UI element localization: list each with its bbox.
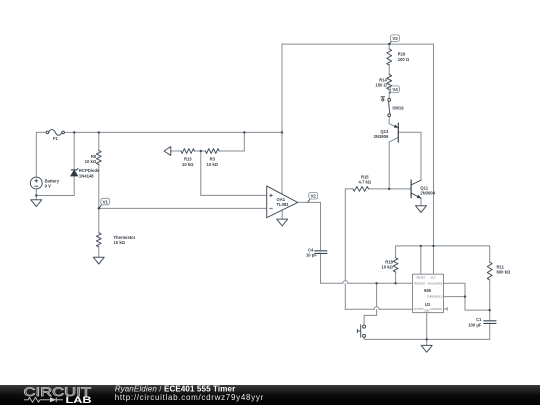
svg-text:GND: GND [424, 310, 430, 313]
node Q11 base [388, 188, 390, 190]
resistor R15 [353, 186, 368, 191]
wire R14 to switch top [388, 90, 390, 99]
svg-text:10 kΩ: 10 kΩ [85, 159, 97, 164]
wire diode top lead [73, 132, 75, 169]
wire R3 right to rail riser [219, 132, 244, 151]
wire R11 bottom to threshold node [489, 280, 491, 321]
wire 555 THRESHOLD to right riser [444, 296, 466, 298]
svg-text:100 Ω: 100 Ω [398, 57, 410, 62]
svg-text:LAB: LAB [66, 395, 92, 405]
wire R13-R3 junction down to op-amp non-inverting input [201, 151, 267, 195]
node R18-trigger [394, 282, 396, 284]
wire battery top to fuse [36, 132, 46, 177]
wire V3 node chain: rail to R19 [388, 44, 390, 49]
svg-text:V1: V1 [103, 199, 109, 204]
wire op-amp V+ riser to top rail [281, 44, 283, 194]
capacitor C4 [314, 251, 327, 254]
wire 555 GND to ground rail [426, 313, 428, 340]
ground below op-amp [277, 219, 288, 226]
resistor R19 [387, 49, 392, 65]
svg-text:VCC: VCC [431, 276, 436, 279]
wire 555 CONTROL stub [444, 308, 448, 311]
wire push button bottom to ground rail [364, 337, 490, 339]
svg-text:THRESHOLD: THRESHOLD [427, 296, 443, 299]
svg-text:10 pF: 10 pF [306, 253, 317, 258]
node R3-rail [243, 131, 245, 133]
wire switch bottom to Q13 emitter [389, 117, 398, 128]
node rail-riser [281, 131, 283, 133]
switch SW19 common terminal [388, 114, 391, 117]
transistor Q11 collector lead [411, 180, 421, 185]
svg-text:TL081: TL081 [277, 202, 290, 207]
transistor Q11 emitter lead [411, 193, 421, 198]
node label V1 [99, 198, 110, 208]
wire node V1 to op-amp inverting input [99, 207, 267, 209]
svg-text:10 kΩ: 10 kΩ [114, 240, 126, 245]
svg-text:10 kΩ: 10 kΩ [182, 162, 194, 167]
wire R19 to R14 [388, 65, 390, 75]
node R13-R3 [200, 150, 202, 152]
wire battery bottom to ground junction [35, 189, 37, 200]
node reset-rail [420, 245, 422, 247]
svg-text:http://circuitlab.com/cdrwz79y: http://circuitlab.com/cdrwz79y48yyr [115, 393, 264, 402]
resistor R18 [393, 258, 398, 272]
svg-text:V2: V2 [311, 194, 317, 199]
node threshold [464, 295, 466, 297]
node R5-rail [98, 131, 100, 133]
wire ground symbol lead under rail [426, 339, 428, 345]
node R11-threshold [489, 309, 491, 311]
diode RCPDiode [71, 168, 79, 176]
svg-text:600 kΩ: 600 kΩ [497, 270, 511, 275]
wire 555 output line left segment [345, 308, 374, 310]
svg-text:1N4148: 1N4148 [79, 173, 94, 178]
capacitor C1 [483, 321, 496, 324]
svg-text:OUTPUT: OUTPUT [414, 308, 425, 311]
svg-text:555: 555 [424, 288, 432, 293]
transistor Q11 base bar [410, 180, 412, 198]
ground arrow left of R13 [164, 147, 171, 156]
wire trigger junction down to push button [364, 283, 377, 325]
node trigger-button [375, 282, 377, 284]
svg-text:150 Ω: 150 Ω [375, 83, 387, 88]
node label V3 [389, 35, 399, 44]
svg-text:4.7 kΩ: 4.7 kΩ [358, 180, 371, 185]
resistor R3 [205, 149, 219, 154]
resistor R13 [181, 149, 195, 154]
wire 555 DISCHARGE to right riser [444, 283, 490, 310]
wire op-amp ground stub [281, 211, 283, 220]
wire R5 bottom to node V1 [98, 165, 100, 209]
svg-text:U1: U1 [425, 302, 431, 307]
wire R18 up to VCC rail [396, 246, 490, 262]
push button terminals [363, 325, 366, 328]
wire hop over button riser on output line [374, 307, 379, 310]
transistor Q13 emitter arrow [394, 125, 397, 128]
svg-text:10 kΩ: 10 kΩ [207, 162, 219, 167]
wire node V1 to thermistor [98, 208, 100, 232]
wire thermistor bottom to ground [98, 247, 100, 257]
wire Q13 collector down to Q11 base node [389, 137, 398, 189]
svg-text:V4: V4 [392, 87, 398, 92]
switch SW19 throw terminal [388, 98, 391, 101]
node label V4 [389, 86, 399, 94]
wire trigger line right of hop to 555 TRIGGER pin [348, 282, 413, 284]
transistor Q11 emitter arrow [417, 195, 420, 198]
resistor R5 [96, 151, 101, 165]
switch SW19 lever [389, 101, 390, 113]
svg-text:DISCHARGE: DISCHARGE [428, 282, 443, 285]
push button actuator [357, 325, 360, 337]
transistor Q13 base bar [397, 123, 399, 142]
svg-text:2N3904: 2N3904 [420, 191, 435, 196]
svg-text:2N3906: 2N3906 [374, 134, 389, 139]
node vcc-rail [432, 245, 434, 247]
wire 555 output line right segment [379, 308, 412, 310]
svg-text:CONTROL: CONTROL [430, 308, 443, 311]
svg-text:100 μF: 100 μF [468, 322, 482, 327]
wire top rail [282, 44, 434, 274]
wire Q11 emitter to ground [420, 198, 422, 206]
wire hop over R15 riser on trigger line [343, 281, 348, 284]
wire fuse right to op-amp riser rail [64, 131, 282, 133]
wire diode bottom to battery ground [36, 176, 74, 195]
svg-text:F1: F1 [53, 136, 59, 141]
resistor R14 [387, 75, 392, 90]
fuse F1 [46, 131, 49, 134]
battery V1 source [30, 177, 42, 189]
wire C4 bottom to trigger line [321, 253, 343, 283]
svg-text:RESET: RESET [417, 276, 426, 279]
wire C1 bottom to ground rail [489, 323, 491, 339]
svg-text:SW19: SW19 [392, 106, 404, 111]
wire R15 right to Q11 base [369, 188, 412, 190]
node gnd-rail [426, 338, 428, 340]
node label V2 [308, 193, 318, 203]
wire op-amp output to V2 corner [298, 202, 321, 250]
svg-text:V3: V3 [392, 36, 398, 41]
node diode-rail [73, 131, 75, 133]
ground below battery [31, 200, 42, 207]
555 timer U1 box [413, 274, 444, 312]
ground below 555 [421, 345, 432, 352]
node battery-diode-ground [35, 194, 37, 196]
wire R13 right to junction [195, 150, 206, 152]
op-amp OA1 [267, 186, 298, 218]
svg-text:9 V: 9 V [45, 184, 51, 189]
resistor R11 [487, 262, 492, 280]
wire R18 top rail [395, 272, 397, 283]
wire Q13 base to Q11 collector riser [398, 132, 421, 180]
wire R15 left lead and down riser [345, 189, 353, 309]
thermistor [96, 233, 101, 247]
ground below Q11 [416, 206, 427, 213]
svg-text:TRIGGER: TRIGGER [414, 282, 426, 285]
wire R5 top lead [98, 132, 100, 150]
wire ground arrow to R13 [171, 150, 181, 152]
node V3 junction [388, 43, 390, 45]
switch SW19 unused throw [382, 99, 384, 101]
ground below thermistor [93, 257, 104, 264]
svg-text:10 kΩ: 10 kΩ [381, 265, 393, 270]
wire 555 RESET riser [420, 246, 422, 274]
footer logo schematic glyph [24, 397, 63, 402]
node V1 junction [98, 207, 100, 209]
